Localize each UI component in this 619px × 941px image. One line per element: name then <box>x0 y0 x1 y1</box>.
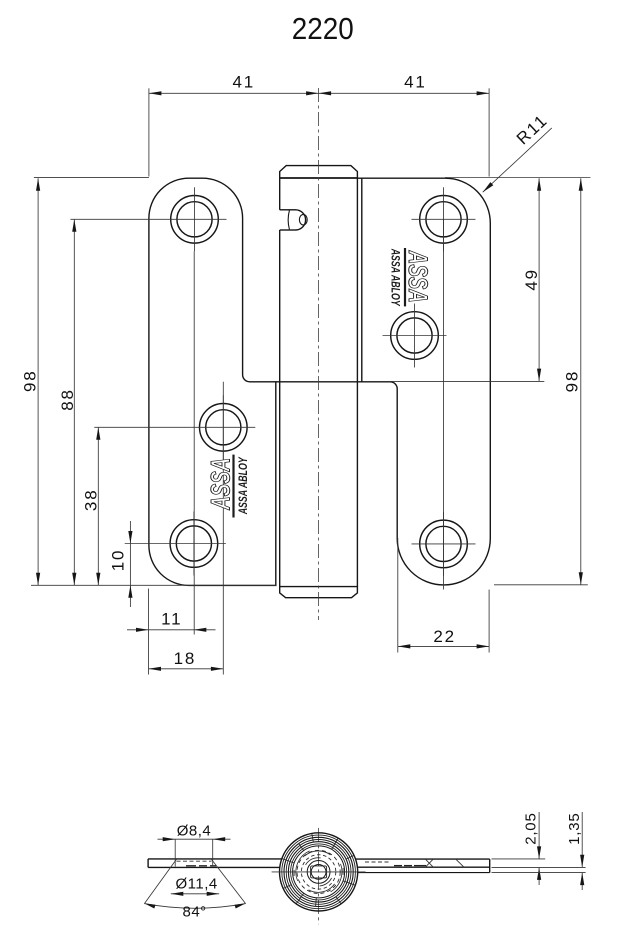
svg-text:22: 22 <box>433 627 456 646</box>
svg-text:ASSA: ASSA <box>206 458 236 511</box>
svg-text:98: 98 <box>562 370 581 393</box>
svg-text:41: 41 <box>233 73 256 92</box>
svg-text:84°: 84° <box>183 904 207 921</box>
svg-text:2,05: 2,05 <box>523 812 540 844</box>
svg-text:Ø8,4: Ø8,4 <box>177 822 212 839</box>
svg-text:1,35: 1,35 <box>566 812 583 844</box>
svg-text:10: 10 <box>109 549 128 572</box>
svg-text:ASSA ABLOY: ASSA ABLOY <box>388 248 402 306</box>
svg-text:41: 41 <box>404 73 427 92</box>
svg-text:88: 88 <box>58 388 77 411</box>
svg-text:98: 98 <box>21 369 40 392</box>
svg-text:Ø11,4: Ø11,4 <box>175 876 217 893</box>
svg-text:18: 18 <box>174 649 197 668</box>
svg-text:11: 11 <box>161 609 182 628</box>
svg-text:49: 49 <box>522 268 541 291</box>
svg-text:ASSA ABLOY: ASSA ABLOY <box>236 457 250 515</box>
svg-text:ASSA: ASSA <box>403 250 433 303</box>
svg-text:2220: 2220 <box>292 11 354 46</box>
svg-text:38: 38 <box>82 489 101 512</box>
